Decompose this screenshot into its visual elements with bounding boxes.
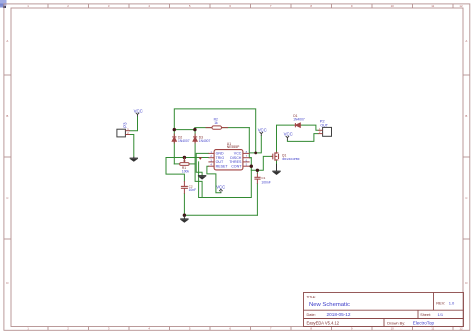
svg-text:D: D [6, 281, 8, 285]
svg-text:10nF: 10nF [189, 188, 197, 192]
svg-text:B: B [465, 114, 467, 118]
svg-text:VCC: VCC [284, 132, 293, 137]
svg-text:2018-05-12: 2018-05-12 [327, 312, 351, 317]
svg-text:VCC: VCC [216, 185, 225, 190]
svg-text:Sheet:: Sheet: [420, 313, 431, 317]
svg-text:C1: C1 [261, 176, 265, 180]
svg-text:REV:: REV: [436, 301, 445, 306]
svg-text:10: 10 [391, 4, 395, 8]
svg-text:P3: P3 [123, 122, 128, 128]
svg-text:1N4007: 1N4007 [199, 139, 211, 143]
svg-text:New Schematic: New Schematic [309, 302, 350, 308]
svg-text:NE555P: NE555P [227, 145, 240, 149]
svg-text:10: 10 [391, 327, 395, 331]
svg-text:ElectroTop: ElectroTop [413, 321, 435, 326]
svg-text:12: 12 [459, 4, 463, 8]
svg-text:1N4007: 1N4007 [293, 118, 305, 122]
svg-text:11: 11 [431, 327, 434, 331]
svg-text:OUT: OUT [320, 123, 328, 127]
svg-text:Date:: Date: [307, 312, 316, 317]
svg-text:1/1: 1/1 [438, 312, 444, 317]
svg-text:CONT: CONT [231, 165, 242, 169]
svg-text:11: 11 [431, 4, 434, 8]
svg-text:D: D [465, 281, 467, 285]
svg-text:1k: 1k [214, 121, 218, 125]
svg-text:100k: 100k [182, 169, 190, 173]
svg-text:C: C [6, 196, 8, 200]
svg-text:1N4007: 1N4007 [178, 139, 190, 143]
svg-text:100nF: 100nF [261, 180, 270, 184]
svg-text:A: A [465, 39, 467, 43]
svg-text:A: A [6, 39, 8, 43]
svg-text:RESET: RESET [216, 165, 229, 169]
svg-text:Drawn By:: Drawn By: [387, 321, 405, 326]
svg-text:EasyEDA V5.4.12: EasyEDA V5.4.12 [307, 320, 340, 325]
svg-text:C: C [465, 196, 467, 200]
svg-text:VCC: VCC [134, 108, 143, 113]
svg-text:VCC: VCC [258, 128, 267, 133]
svg-text:IRF2404PBF: IRF2404PBF [282, 157, 300, 161]
svg-text:TITLE:: TITLE: [307, 295, 316, 299]
svg-text:B: B [6, 114, 8, 118]
svg-text:12: 12 [459, 327, 463, 331]
svg-text:1.0: 1.0 [449, 301, 455, 306]
